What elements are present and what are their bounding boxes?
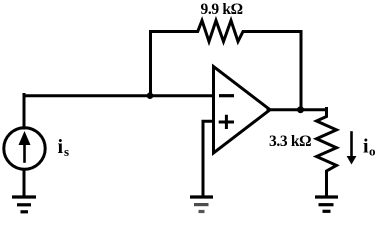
svg-text:s: s <box>64 144 69 159</box>
svg-text:9.9 kΩ: 9.9 kΩ <box>201 1 243 18</box>
svg-text:i: i <box>58 136 64 158</box>
svg-text:o: o <box>369 144 376 159</box>
svg-text:3.3 kΩ: 3.3 kΩ <box>269 133 311 150</box>
